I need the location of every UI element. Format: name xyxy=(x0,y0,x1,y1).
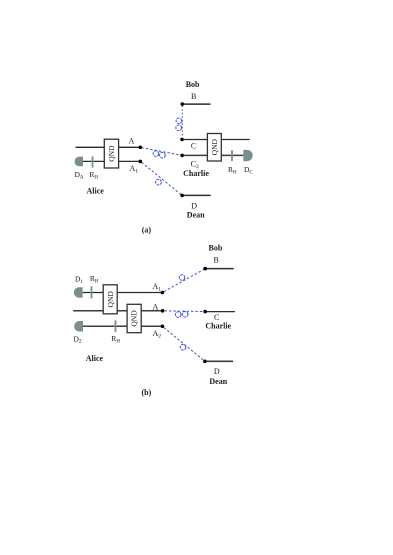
svg-text:QND: QND xyxy=(106,291,115,308)
svg-text:Alice: Alice xyxy=(86,354,104,363)
svg-text:RH: RH xyxy=(89,170,98,180)
svg-text:Bob: Bob xyxy=(209,244,223,253)
svg-text:RH: RH xyxy=(90,274,99,284)
svg-text:QND: QND xyxy=(210,138,219,155)
svg-text:D: D xyxy=(214,367,220,376)
svg-text:A: A xyxy=(153,303,159,312)
svg-text:A1: A1 xyxy=(130,164,139,175)
svg-text:Dean: Dean xyxy=(187,211,205,220)
svg-text:QND: QND xyxy=(107,145,116,162)
svg-text:B: B xyxy=(191,92,196,101)
svg-text:D2: D2 xyxy=(74,334,82,344)
svg-text:Alice: Alice xyxy=(87,186,105,195)
svg-text:Charlie: Charlie xyxy=(183,169,209,178)
svg-text:Dean: Dean xyxy=(209,377,227,386)
svg-text:C: C xyxy=(191,142,196,151)
svg-text:QND: QND xyxy=(130,310,139,327)
svg-text:D: D xyxy=(191,202,197,211)
svg-text:Charlie: Charlie xyxy=(205,322,231,331)
svg-text:B: B xyxy=(214,256,219,265)
svg-text:A: A xyxy=(129,137,135,146)
svg-text:Bob: Bob xyxy=(186,80,200,89)
svg-text:A1: A1 xyxy=(153,282,162,293)
svg-text:RH: RH xyxy=(111,334,120,344)
svg-text:DA: DA xyxy=(75,170,84,180)
svg-text:(a): (a) xyxy=(142,226,152,235)
svg-text:A2: A2 xyxy=(153,329,162,340)
svg-text:(b): (b) xyxy=(142,388,152,397)
svg-text:DC: DC xyxy=(244,165,253,175)
svg-text:D1: D1 xyxy=(75,274,83,284)
svg-text:RH: RH xyxy=(228,165,237,175)
